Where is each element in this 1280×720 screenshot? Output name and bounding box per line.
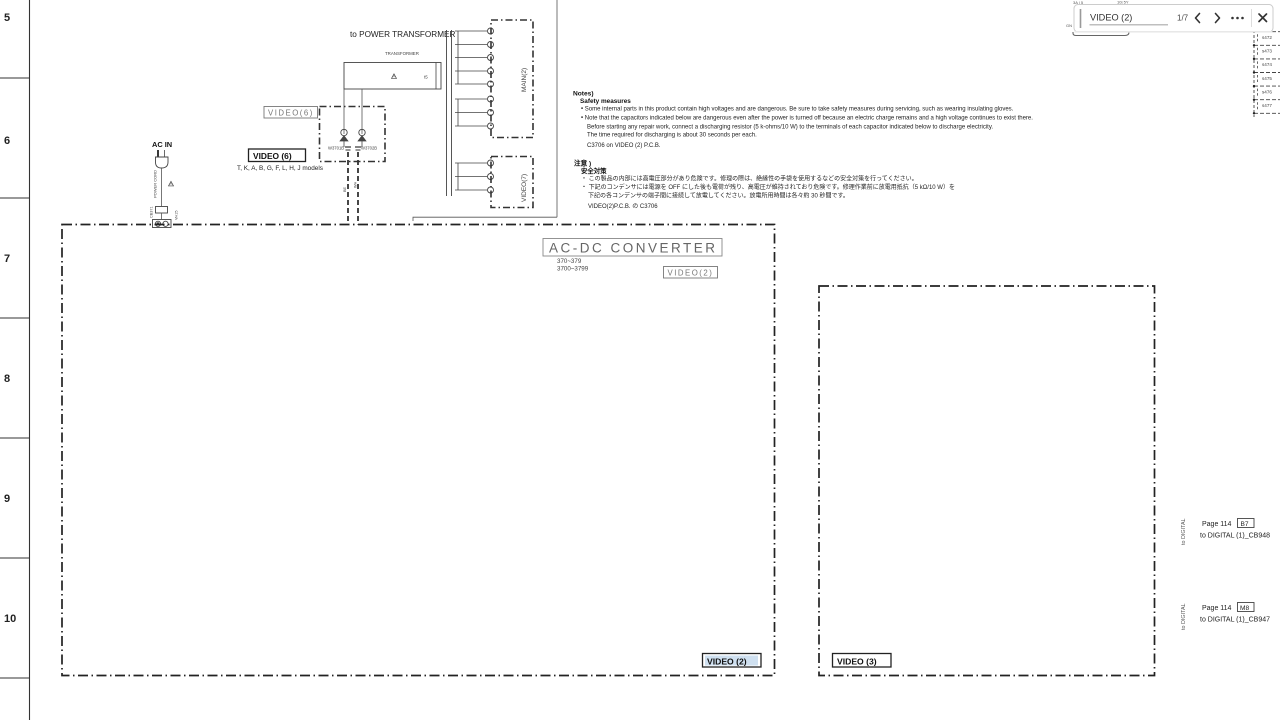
plug AC IN: [157, 150, 159, 157]
svg-text:8: 8: [4, 373, 10, 385]
svg-text:to POWER TRANSFORMER: to POWER TRANSFORMER: [350, 30, 455, 39]
net s474: [1254, 58, 1280, 60]
wire transformer to plug W3701B: [343, 89, 345, 131]
svg-text:VIDEO(7): VIDEO(7): [521, 174, 528, 202]
svg-text:5: 5: [4, 12, 10, 24]
connector box MAIN(2): [491, 20, 533, 138]
svg-text:GN: GN: [1066, 23, 1072, 28]
svg-text:9: 9: [4, 493, 10, 505]
net s476: [1254, 85, 1280, 87]
transformer block box: [344, 63, 441, 90]
toolbar next chevron: [1216, 14, 1220, 23]
net s475: [1254, 72, 1280, 74]
plug sockets at VIDEO(6) bottom: [345, 146, 351, 148]
connector CB371: [156, 207, 168, 214]
toolbar separator: [1251, 9, 1253, 27]
svg-text:Page 114: Page 114: [1202, 521, 1232, 528]
component fragment under toolbar: [1073, 32, 1129, 36]
svg-text:安全対策: 安全対策: [581, 166, 607, 175]
svg-text:VIDEO (2): VIDEO (2): [707, 657, 747, 667]
svg-text:・ この製品の内部には高電圧部分があり危険です。修理の際は、: ・ この製品の内部には高電圧部分があり危険です。修理の際は、絶縁性の手袋を使用す…: [581, 175, 918, 183]
winding group to MAIN(2) lower: [455, 98, 487, 100]
ruler tick: [0, 437, 30, 439]
wire bottom of top block: [413, 217, 557, 221]
svg-text:to DIGITAL (1)_CB948: to DIGITAL (1)_CB948: [1200, 533, 1270, 540]
svg-text:W3702B: W3702B: [361, 146, 377, 151]
label VIDEO(6) outline box: [264, 107, 318, 119]
svg-text:s477: s477: [1262, 103, 1272, 108]
svg-text:WH: WH: [354, 181, 358, 188]
svg-text:VIDEO(2): VIDEO(2): [668, 269, 714, 278]
wire right vertical frame: [556, 0, 558, 217]
svg-text:s476: s476: [1262, 89, 1272, 94]
svg-text:AC IN: AC IN: [152, 140, 172, 149]
svg-text:下記の各コンデンサの端子間に接続して放電してください。放電所: 下記の各コンデンサの端子間に接続して放電してください。放電所用時間は各々約 30…: [588, 191, 849, 199]
plug W3702B: [359, 129, 365, 135]
svg-text:Notes): Notes): [573, 91, 594, 98]
svg-text:The time required for discharg: The time required for discharging is abo…: [587, 133, 757, 139]
svg-text:10: 10: [4, 613, 16, 625]
toolbar more dots: [1231, 17, 1234, 20]
svg-text:POWER CORD: POWER CORD: [153, 170, 158, 198]
label VIDEO(2) outline box: [664, 267, 718, 279]
wire plug into border: [161, 213, 163, 220]
toolbar close X: [1259, 14, 1267, 22]
net bottom stub: [1254, 112, 1280, 114]
winding group to MAIN(2) upper: [455, 30, 487, 32]
svg-text:・ 下記のコンデンサには電源を OFF にした後も電荷が残り: ・ 下記のコンデンサには電源を OFF にした後も電荷が残り、高電圧が維持されて…: [581, 183, 955, 191]
toolbar input underline: [1090, 24, 1169, 26]
svg-text:s474: s474: [1262, 62, 1272, 67]
svg-text:TRANSFORMER: TRANSFORMER: [385, 51, 419, 56]
svg-text:MAIN(2): MAIN(2): [521, 68, 528, 92]
svg-text:AC-DC CONVERTER: AC-DC CONVERTER: [549, 240, 718, 255]
svg-text:10| 5Y: 10| 5Y: [1117, 0, 1129, 5]
svg-text:6: 6: [4, 135, 10, 147]
net s473: [1254, 44, 1280, 46]
svg-text:BE: BE: [343, 186, 347, 192]
connector box VIDEO(7): [491, 157, 533, 208]
svg-text:VIDEO (3): VIDEO (3): [837, 657, 877, 667]
svg-text:M8: M8: [1240, 605, 1249, 612]
svg-text:VIDEO (2): VIDEO (2): [1090, 13, 1132, 23]
svg-text:Before starting any repair wor: Before starting any repair work, connect…: [587, 125, 993, 131]
svg-text:T, K, A, B, G, F, L, H, J mode: T, K, A, B, G, F, L, H, J models: [237, 165, 323, 172]
wire dashed BE: [347, 152, 349, 225]
net s477: [1254, 99, 1280, 101]
svg-text:注意 ): 注意 ): [574, 159, 591, 168]
title AC-DC CONVERTER: [543, 239, 722, 257]
svg-text:VH15: VH15: [175, 211, 179, 221]
ruler line: [29, 0, 31, 720]
wire transformer to plug W3702B: [361, 89, 363, 131]
net s472: [1254, 31, 1280, 33]
svg-text:to DIGITAL: to DIGITAL: [1181, 603, 1187, 630]
svg-text:7: 7: [4, 253, 10, 265]
ruler tick: [0, 77, 30, 79]
svg-text:s472: s472: [1262, 35, 1272, 40]
label VIDEO (3) bottom: [833, 654, 892, 668]
toolbar prev chevron: [1196, 14, 1200, 23]
svg-text:W3701B: W3701B: [328, 146, 344, 151]
toolbar find bar: [1074, 5, 1273, 33]
label VIDEO (6) title: [249, 149, 306, 162]
svg-text:VIDEO (6): VIDEO (6): [253, 151, 292, 161]
svg-text:3700~3799: 3700~3799: [557, 266, 589, 273]
svg-text:• Note that the capacitors ind: • Note that the capacitors indicated bel…: [581, 116, 1033, 122]
bus right edge dashed: [1253, 30, 1255, 117]
label VIDEO (2) bottom: [703, 654, 762, 668]
svg-text:CB371: CB371: [150, 206, 154, 218]
plug W3701B: [341, 129, 347, 135]
svg-text:B7: B7: [1241, 521, 1249, 528]
svg-text:s473: s473: [1262, 49, 1272, 54]
toolbar drag handle: [1080, 9, 1082, 28]
svg-text:VIDEO(6): VIDEO(6): [268, 109, 314, 118]
connector box VIDEO(6) dashed: [320, 107, 386, 162]
winding group to VIDEO(7): [455, 162, 487, 164]
ruler tick: [0, 677, 30, 679]
svg-text:370~379: 370~379: [557, 258, 582, 265]
svg-text:s475: s475: [1262, 76, 1272, 81]
svg-text:C3706 on VIDEO (2) P.C.B.: C3706 on VIDEO (2) P.C.B.: [587, 143, 661, 149]
core of power transformer: [446, 30, 448, 196]
ruler tick: [0, 557, 30, 559]
svg-text:Page 114: Page 114: [1202, 605, 1232, 612]
svg-text:Safety measures: Safety measures: [580, 98, 631, 105]
svg-text:to DIGITAL (1)_CB947: to DIGITAL (1)_CB947: [1200, 617, 1270, 624]
wire dashed WH: [357, 152, 359, 225]
svg-text:1/7: 1/7: [1177, 13, 1189, 22]
border VIDEO(2) board: [62, 225, 775, 676]
ruler tick: [0, 197, 30, 199]
svg-text:t5: t5: [424, 75, 428, 80]
wire power cord: [161, 168, 163, 206]
svg-text:VIDEO(2)P.C.B. の C3706: VIDEO(2)P.C.B. の C3706: [588, 203, 658, 210]
ruler tick: [0, 317, 30, 319]
border VIDEO(3) board: [819, 286, 1155, 676]
svg-text:to DIGITAL: to DIGITAL: [1181, 518, 1187, 545]
svg-text:• Some internal parts in this: • Some internal parts in this product co…: [581, 106, 1014, 112]
